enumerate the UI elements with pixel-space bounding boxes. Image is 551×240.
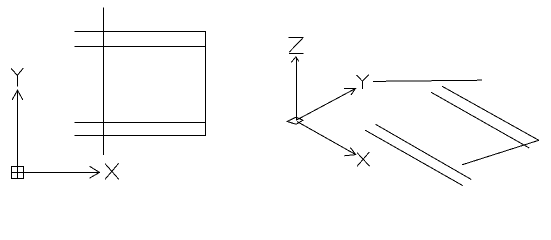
ucs-3d Z axis line xyxy=(296,57,298,120)
wire iso right return line D xyxy=(462,140,539,165)
wire plan-view top horizontal line 1 xyxy=(75,31,206,33)
ucs-2d origin box xyxy=(12,167,24,179)
wire iso upper slanted line C xyxy=(431,92,529,148)
ucs-3d X axis arrowhead xyxy=(344,148,355,156)
ucs-3d Y axis arrowhead xyxy=(344,89,356,96)
ucs-2d X axis arrowhead xyxy=(90,166,100,178)
wire iso top edge line xyxy=(373,80,482,81)
ucs-3d origin diamond xyxy=(287,117,303,124)
ucs-2d X axis line xyxy=(24,172,100,174)
ucs-3d Z axis arrowhead xyxy=(291,57,299,63)
wire plan-view top horizontal line 2 xyxy=(75,46,206,48)
wire plan-view bottom horizontal line 3 xyxy=(75,122,206,124)
ucs-2d Y axis line xyxy=(17,91,19,167)
ucs-2d axis label Y xyxy=(11,68,23,87)
wire iso upper slanted line B xyxy=(442,86,539,140)
ucs-3d axis label X xyxy=(357,152,370,166)
wire plan-view long vertical line xyxy=(103,8,105,155)
wire iso lower slanted line F xyxy=(375,124,471,179)
wire plan-view right vertical edge xyxy=(205,31,207,136)
ucs-2d Y axis arrowhead xyxy=(12,90,23,100)
ucs-2d axis label X xyxy=(105,163,119,179)
ucs-3d Y axis line xyxy=(297,89,356,120)
ucs-3d axis label Z xyxy=(289,38,304,54)
ucs-3d X axis line xyxy=(297,122,356,155)
ucs-3d axis label Y xyxy=(357,75,369,89)
wire plan-view bottom horizontal line 4 xyxy=(75,135,206,137)
wire iso lower slanted line G xyxy=(365,130,463,185)
